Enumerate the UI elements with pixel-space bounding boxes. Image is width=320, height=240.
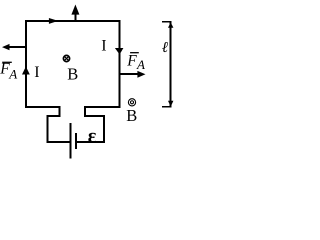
svg-text:ℓ: ℓ [162,40,168,56]
svg-text:A: A [8,67,17,82]
svg-text:F: F [126,53,137,70]
svg-text:I: I [101,38,106,55]
svg-text:B: B [67,65,78,84]
svg-text:B: B [126,106,137,125]
svg-text:A: A [136,57,145,72]
svg-text:ε: ε [88,126,97,148]
svg-text:I: I [34,64,39,81]
